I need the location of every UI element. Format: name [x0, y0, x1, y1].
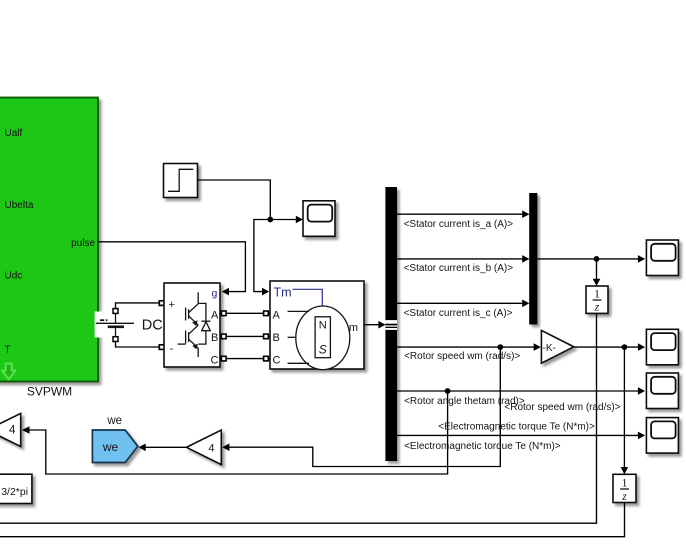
battery glyph	[96, 314, 134, 338]
wire junction to Tm	[254, 220, 270, 292]
node gain out junction	[622, 344, 628, 350]
wire is_a	[397, 213, 523, 215]
port square DC bottom	[113, 337, 118, 342]
wire DC minus lead	[116, 340, 161, 348]
svg-text:A: A	[211, 310, 219, 322]
step source block	[164, 164, 198, 198]
svg-text:<Electromagnetic torque Te (N*: <Electromagnetic torque Te (N*m)>	[404, 441, 561, 452]
node wm junction	[497, 344, 503, 350]
wire thetam return to gain4a	[30, 391, 448, 474]
wire is_b	[397, 258, 523, 260]
wire junction to scope	[270, 219, 296, 221]
subsystem SVPWM	[0, 98, 98, 382]
svg-text:C: C	[273, 355, 281, 367]
unit delay 1/z #1	[586, 286, 608, 313]
DC voltage source DC	[95, 312, 161, 338]
universal bridge block	[164, 283, 220, 367]
bridge IGBT glyph	[178, 292, 211, 357]
svg-text:4: 4	[208, 442, 214, 454]
svg-text:we: we	[106, 415, 122, 427]
scope2 right top	[646, 240, 678, 276]
svg-text:Ualf: Ualf	[5, 128, 23, 139]
mux bar2	[529, 193, 537, 325]
svg-text:z: z	[594, 302, 600, 314]
wire DC plus lead	[116, 303, 161, 311]
port squares ABC	[221, 311, 268, 361]
node thetam junction	[445, 388, 451, 394]
wire junction down to unit delay 2	[623, 347, 625, 467]
svg-text:pulse: pulse	[71, 238, 95, 249]
wire wm to gain	[397, 346, 534, 348]
svg-text:<Rotor speed wm (rad/s)>: <Rotor speed wm (rad/s)>	[504, 402, 620, 413]
port square DC top	[113, 309, 118, 314]
node step junction	[267, 217, 273, 223]
wire thetam	[397, 390, 638, 392]
svg-text:T: T	[5, 345, 11, 356]
wire bar2 to scope	[537, 258, 638, 260]
wire bridge B to machine B	[220, 335, 270, 337]
wire bridge A to machine A	[220, 312, 270, 314]
svg-text:<Stator current is_b (A)>: <Stator current is_b (A)>	[404, 263, 514, 274]
wire step to junction	[198, 180, 271, 220]
gain 4 far left	[0, 413, 21, 446]
node is_b junction	[594, 256, 600, 262]
gain -K-	[541, 330, 573, 363]
svg-text:Tm: Tm	[274, 286, 292, 300]
svg-text:<Electromagnetic torque Te (N*: <Electromagnetic torque Te (N*m)>	[438, 422, 595, 433]
svg-text:B: B	[211, 332, 218, 344]
goto tag we	[92, 430, 137, 463]
scope4	[646, 373, 678, 409]
scope5	[646, 418, 678, 454]
bus selector bar	[385, 187, 397, 461]
svg-text:S: S	[319, 343, 327, 357]
wire pulse to bridge g	[98, 242, 245, 292]
svg-text:z: z	[621, 491, 627, 503]
svg-text:-K-: -K-	[543, 343, 556, 354]
svg-text:Udc: Udc	[5, 271, 23, 282]
svg-text:N: N	[319, 320, 327, 332]
svg-text:C: C	[211, 355, 219, 367]
constant 3/2*pi	[0, 474, 32, 503]
wire torque	[397, 434, 638, 436]
svg-text:m: m	[349, 322, 358, 334]
svg-text:-: -	[170, 343, 174, 355]
svg-text:B: B	[273, 332, 280, 344]
wire unit delay 2 output to bottom left	[0, 503, 625, 537]
wire wm return to gain4b	[229, 347, 500, 466]
wire is_c	[397, 302, 523, 304]
scope3	[646, 329, 678, 365]
port square bridge plus	[159, 301, 164, 306]
wire bridge C to machine C	[220, 358, 270, 360]
unit delay 1/z #2	[613, 474, 636, 502]
svg-text:1: 1	[594, 289, 600, 301]
svg-text:4: 4	[9, 425, 16, 437]
svg-text:<Stator current is_c (A)>: <Stator current is_c (A)>	[404, 308, 513, 319]
svg-text:<Stator current is_a (A)>: <Stator current is_a (A)>	[404, 219, 514, 230]
wire unit delay 1 output to bottom left	[0, 313, 597, 523]
wire gain to scope2	[574, 346, 639, 348]
svg-text:g: g	[212, 288, 218, 300]
svg-text:1: 1	[622, 477, 628, 489]
svg-text:<Rotor speed wm (rad/s)>: <Rotor speed wm (rad/s)>	[404, 351, 520, 362]
svg-text:SVPWM: SVPWM	[27, 385, 72, 399]
svg-text:we: we	[102, 440, 119, 454]
svg-text:Ubelta: Ubelta	[5, 200, 34, 211]
SVPWM drop icon	[2, 364, 16, 380]
asynchronous machine block	[270, 281, 364, 369]
wire gain4b to we	[146, 446, 187, 448]
gain 4 middle	[187, 430, 222, 465]
svg-text:DC: DC	[142, 318, 163, 334]
wire machine m to bus selector	[364, 324, 379, 326]
svg-text:3/2*pi: 3/2*pi	[1, 486, 28, 498]
port square bridge minus	[159, 345, 164, 350]
svg-text:+: +	[169, 299, 175, 311]
scope1 (top middle)	[303, 201, 335, 237]
svg-text:A: A	[273, 310, 281, 322]
wire junction down to unit delay 1	[596, 259, 598, 279]
